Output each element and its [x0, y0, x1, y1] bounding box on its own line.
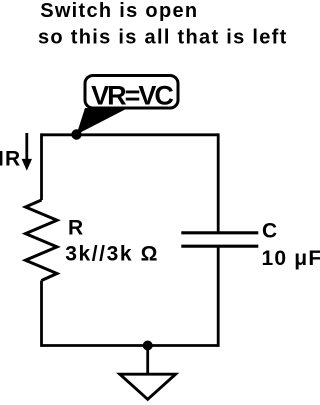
- ground stub wire: [146, 346, 149, 375]
- ground symbol triangle: [120, 374, 176, 399]
- capacitor C bottom plate: [181, 245, 258, 248]
- wire: left vertical upper segment: [40, 133, 43, 200]
- current arrow IR shaft: [25, 133, 28, 161]
- svg-text:VR=VC: VR=VC: [91, 80, 173, 110]
- svg-text:Switch is open: Switch is open: [40, 0, 198, 22]
- resistor R 3k//3k: [26, 200, 58, 281]
- svg-text:C: C: [262, 219, 278, 242]
- svg-text:so this is all that is left: so this is all that is left: [38, 26, 288, 48]
- wire: bottom horizontal (ground net): [42, 344, 219, 347]
- wire: right vertical lower segment: [217, 246, 220, 347]
- current arrow IR head: [22, 159, 32, 171]
- title caption: [38, 0, 288, 48]
- svg-text:3k//3k Ω: 3k//3k Ω: [65, 242, 159, 265]
- wire: top horizontal (node VR=VC net): [42, 133, 219, 136]
- node: top junction dot: [71, 129, 81, 139]
- svg-text:IR: IR: [0, 148, 21, 171]
- svg-text:R: R: [68, 217, 84, 240]
- wire: right vertical upper segment: [217, 133, 220, 232]
- node: bottom junction dot: [143, 341, 153, 351]
- callout tail: [77, 108, 127, 135]
- wire: left vertical lower segment: [40, 281, 43, 347]
- callout bubble VR=VC: [85, 76, 178, 109]
- capacitor C top plate: [181, 231, 258, 234]
- svg-text:10 μF: 10 μF: [262, 247, 320, 270]
